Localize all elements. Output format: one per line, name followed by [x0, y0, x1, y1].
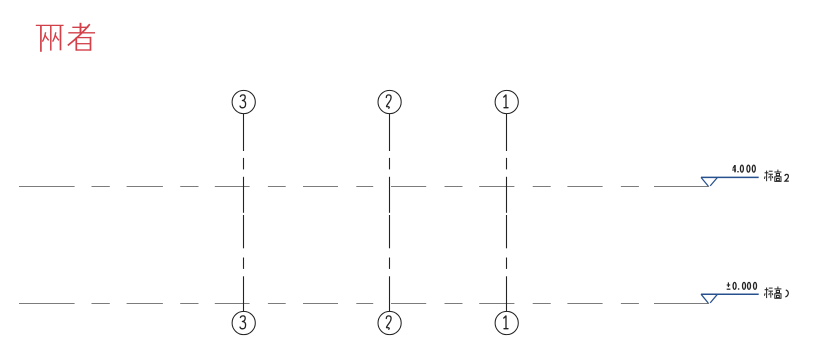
grid bubble 2 (bottom)	[378, 311, 401, 334]
grid bubble 2 (top)	[378, 90, 401, 113]
grid line 3 (vertical dash-dot)	[243, 114, 245, 312]
level number digit for level 1 (标高1)	[785, 290, 788, 297]
level head level 2 (标高2): blue annotation line	[701, 176, 759, 178]
grid line 2 (vertical dash-dot)	[389, 114, 391, 312]
level name text 标高 for level 1 (标高1)	[764, 287, 781, 299]
level head level 1 (标高1): blue annotation line	[701, 293, 759, 295]
elevation value text for level 2 (标高2)	[732, 165, 755, 172]
grid bubble 1 (bottom)	[495, 311, 518, 334]
grid bubble 3 (top)	[232, 90, 255, 113]
level name text 标高 for level 2 (标高2)	[764, 170, 781, 182]
level line 标高2 (elev 4.000) (dash-dot)	[19, 186, 709, 188]
level head level 1 (标高1): open triangle right leg	[710, 294, 717, 303]
level line 标高1 (elev 0.000) (dash-dot)	[19, 303, 709, 305]
elevation value text for level 1 (标高1)	[727, 282, 757, 289]
grid bubble 1 (top)	[495, 90, 518, 113]
title character 者 (red serif strokes)	[68, 23, 95, 51]
level head level 2 (标高2): open triangle right leg	[710, 177, 717, 186]
title character 两 (red serif strokes)	[36, 25, 64, 51]
grid bubble 3 (bottom)	[232, 311, 255, 334]
level head level 2 (标高2): open triangle left leg	[701, 177, 708, 186]
level head level 1 (标高1): open triangle left leg	[701, 294, 708, 303]
grid line 1 (vertical dash-dot)	[506, 114, 508, 312]
level number digit for level 2 (标高2)	[785, 174, 789, 181]
